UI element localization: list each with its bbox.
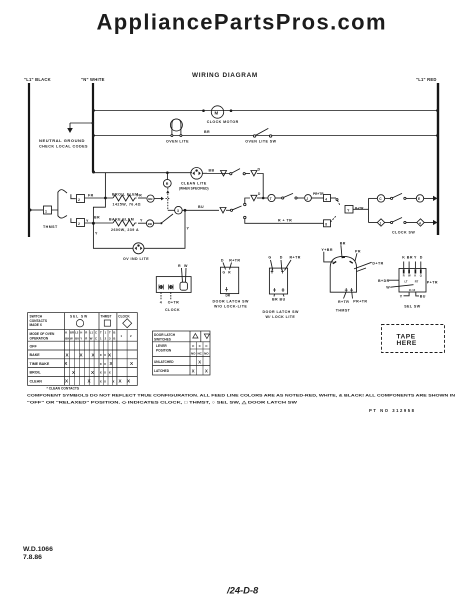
svg-text:W: W — [386, 286, 390, 290]
svg-text:"L1" RED: "L1" RED — [416, 77, 437, 82]
svg-text:11 12: 11 12 — [409, 288, 416, 292]
svg-text:W/O LOCK-LITE: W/O LOCK-LITE — [214, 305, 247, 309]
svg-text:R+TR: R+TR — [229, 258, 240, 262]
coil circle E top right — [416, 195, 437, 202]
svg-text:AppliancePartsPros.com: AppliancePartsPros.com — [97, 10, 386, 35]
coil circle 308 — [305, 192, 325, 201]
connector triangle BU — [220, 208, 226, 214]
svg-text:"N" WHITE: "N" WHITE — [81, 77, 105, 82]
svg-text:2: 2 — [78, 222, 80, 226]
svg-text:THMST: THMST — [336, 309, 351, 313]
svg-text:J: J — [306, 197, 308, 201]
svg-text:R+TR: R+TR — [290, 256, 301, 260]
lamp oven lite — [166, 119, 210, 144]
svg-text:C: C — [95, 337, 97, 341]
svg-text:W: W — [90, 337, 93, 341]
svg-text:PT NO 312958: PT NO 312958 — [369, 408, 415, 413]
svg-text:8: 8 — [325, 223, 327, 227]
svg-text:PR: PR — [355, 249, 361, 253]
sub column lines — [70, 330, 128, 386]
svg-text:B: B — [113, 337, 115, 341]
table switch contacts — [28, 313, 445, 391]
svg-text:BAKE: BAKE — [30, 353, 41, 357]
terminal box 4 — [311, 195, 336, 202]
svg-text:NO: NO — [191, 352, 196, 356]
svg-text:W/ LOCK LITE: W/ LOCK LITE — [266, 315, 296, 319]
svg-text:LATCHED: LATCHED — [154, 369, 170, 373]
lamp clean lite — [179, 168, 215, 191]
svg-text:POSITION: POSITION — [156, 349, 172, 353]
switch oven lite sw — [245, 128, 276, 143]
svg-text:R: R — [403, 273, 405, 277]
svg-text:D: D — [280, 256, 283, 260]
svg-text:O+TR: O+TR — [168, 300, 180, 304]
wire L1 red rail — [437, 83, 439, 235]
svg-text:W.D.1066: W.D.1066 — [23, 546, 53, 553]
svg-text:RT: RT — [415, 279, 419, 283]
svg-text:OVEN LITE: OVEN LITE — [166, 140, 189, 144]
wire link to Y box — [336, 199, 340, 206]
svg-text:D: D — [221, 258, 224, 262]
svg-text:B+DR: B+DR — [378, 279, 390, 283]
svg-text:L1: L1 — [90, 331, 94, 335]
svg-text:L2: L2 — [75, 331, 79, 335]
svg-text:MODE OF OVEN: MODE OF OVEN — [30, 332, 55, 336]
svg-text:MADE X: MADE X — [30, 323, 43, 327]
svg-text:OV IND LITE: OV IND LITE — [123, 257, 149, 261]
svg-text:H: H — [80, 331, 82, 335]
wire L1 black rail — [28, 83, 30, 237]
clock motor M1 — [202, 106, 239, 124]
wire top rail 1 — [93, 110, 438, 112]
door latch sw w/ lock lite connector — [263, 256, 301, 320]
svg-text:HERE: HERE — [397, 340, 417, 347]
switch clock sw top — [385, 193, 417, 199]
svg-text:"L1" BLACK: "L1" BLACK — [24, 77, 51, 82]
svg-text:OPERATION: OPERATION — [30, 337, 49, 341]
svg-text:K: K — [65, 331, 67, 335]
svg-text:LEVER: LEVER — [156, 344, 167, 348]
svg-text:3: 3 — [177, 209, 179, 213]
svg-text:Y+BR: Y+BR — [321, 248, 333, 252]
svg-text:FR: FR — [88, 194, 94, 198]
svg-text:OFF: OFF — [30, 344, 38, 348]
door latch sw w/o lock-lite connector — [213, 258, 249, 308]
svg-text:CLOCK SW: CLOCK SW — [392, 231, 415, 235]
svg-text:C: C — [95, 331, 97, 335]
wire mid rail from N — [93, 172, 192, 174]
wire rail 2 — [93, 135, 438, 137]
selector switch SEL SW connector — [378, 255, 438, 308]
svg-text:CLEAN LITE: CLEAN LITE — [181, 182, 207, 186]
svg-text:CHECK LOCAL CODES: CHECK LOCAL CODES — [39, 145, 88, 149]
svg-text:4: 4 — [325, 197, 327, 201]
svg-text:T: T — [100, 331, 102, 335]
wire BU line — [182, 205, 219, 212]
svg-text:P+TR: P+TR — [427, 280, 438, 284]
svg-text:4: 4 — [160, 300, 162, 304]
resistor broil element — [85, 193, 162, 207]
svg-text:7.8.86: 7.8.86 — [23, 554, 42, 561]
diamond contact clock sw bottom right — [392, 219, 438, 235]
svg-text:TIME BAKE: TIME BAKE — [30, 362, 50, 366]
switch selector contact to two throws — [230, 203, 246, 218]
svg-text:NO: NO — [204, 352, 209, 356]
svg-text:CLOCK MOTOR: CLOCK MOTOR — [207, 120, 239, 124]
svg-text:BR BU: BR BU — [272, 298, 286, 302]
wire ov ind lite loop — [92, 210, 190, 248]
switch clean lite sw — [230, 169, 250, 175]
svg-text:T: T — [109, 331, 111, 335]
note component symbols — [23, 394, 455, 596]
svg-text:B+TR: B+TR — [355, 207, 364, 211]
svg-text:LT: LT — [405, 280, 408, 284]
svg-text:X: X — [192, 369, 195, 374]
svg-text:BB: BB — [209, 169, 215, 173]
svg-text:x: x — [104, 362, 106, 366]
svg-text:R: R — [85, 337, 87, 341]
svg-text:W: W — [184, 264, 188, 268]
svg-text:DR: DR — [226, 294, 231, 298]
svg-text:SWITCHES: SWITCHES — [154, 337, 171, 341]
svg-text:K: K — [414, 273, 416, 277]
resistor bake element — [85, 216, 161, 233]
svg-text:Y: Y — [187, 227, 190, 231]
svg-text:BR: BR — [340, 241, 346, 245]
svg-text:Y: Y — [80, 337, 82, 341]
connectors row — [156, 241, 438, 319]
terminal box 8 — [324, 216, 337, 227]
svg-text:UNLATCHED: UNLATCHED — [154, 360, 174, 364]
wire lower branch R+TR — [245, 219, 324, 224]
clock connector — [156, 264, 191, 312]
row labels — [30, 344, 50, 383]
svg-text:Y: Y — [95, 232, 98, 236]
svg-text:K: K — [402, 255, 405, 259]
svg-text:x: x — [113, 379, 115, 383]
connector triangle D — [251, 171, 257, 177]
svg-text:1: 1 — [45, 210, 47, 214]
svg-text:B: B — [113, 331, 115, 335]
svg-text:DOOR LATCH SW: DOOR LATCH SW — [263, 310, 299, 314]
svg-text:BR: BR — [204, 130, 210, 134]
ground neutral arrow — [39, 122, 94, 149]
relay coil K and link — [161, 171, 171, 210]
svg-text:THMST: THMST — [101, 314, 112, 318]
table door latch switches — [153, 331, 211, 375]
coil circle T top — [377, 195, 384, 202]
svg-text:/24-D-8: /24-D-8 — [226, 585, 259, 596]
svg-text:BR: BR — [94, 216, 100, 220]
svg-text:G: G — [268, 256, 271, 260]
switch after J — [275, 193, 304, 199]
svg-text:PR+TR: PR+TR — [353, 300, 367, 304]
thermostat THMST connector dome — [321, 241, 383, 312]
svg-text:BU: BU — [75, 337, 79, 341]
tape here box — [382, 325, 445, 353]
svg-text:BR: BR — [407, 255, 413, 259]
lamp ov ind lite — [123, 243, 149, 261]
thermostat THMST contact block — [29, 190, 85, 229]
diamond contact clock sw bottom left — [377, 219, 384, 226]
svg-text:BROIL: BROIL — [30, 371, 42, 375]
svg-text:X: X — [198, 359, 201, 364]
X marks — [64, 352, 134, 383]
svg-text:NEUTRAL GROUND: NEUTRAL GROUND — [39, 139, 85, 143]
svg-text:(WHEN SPECIFIED): (WHEN SPECIFIED) — [179, 187, 209, 191]
wire top branch y198 — [245, 198, 250, 203]
svg-text:x: x — [104, 371, 106, 375]
wire drop to broil line — [93, 173, 105, 224]
svg-text:BR: BR — [70, 331, 74, 335]
svg-text:CLEAN: CLEAN — [30, 380, 43, 384]
terminal box Y — [345, 206, 369, 214]
svg-text:DOOR LATCH SW: DOOR LATCH SW — [213, 299, 249, 303]
svg-text:CLOCK: CLOCK — [118, 314, 130, 318]
svg-text:E: E — [418, 197, 420, 201]
tiny sub headers — [65, 331, 132, 341]
svg-text:4: 4 — [419, 221, 421, 225]
svg-text:X: X — [205, 369, 208, 374]
svg-text:T: T — [270, 197, 272, 201]
svg-text:x: x — [100, 379, 102, 383]
svg-text:Y: Y — [140, 219, 143, 223]
switch arm upper to box 2 — [52, 192, 58, 217]
svg-text:BU: BU — [198, 205, 204, 209]
switch arm lower to box 2 — [58, 216, 67, 219]
svg-text:CLOCK: CLOCK — [165, 308, 180, 312]
svg-text:x: x — [100, 371, 102, 375]
svg-text:COMPONENT SYMBOLS DO NOT REFLE: COMPONENT SYMBOLS DO NOT REFLECT TRUE CO… — [27, 394, 455, 398]
svg-text:R: R — [85, 331, 87, 335]
svg-text:x: x — [100, 353, 102, 357]
svg-text:SEL SW: SEL SW — [70, 314, 88, 318]
svg-text:BK: BK — [65, 337, 69, 341]
row lines — [28, 329, 138, 331]
svg-text:Q: Q — [420, 273, 422, 277]
svg-text:FR: FR — [137, 194, 143, 198]
svg-text:2: 2 — [78, 198, 80, 202]
svg-text:"OFF" OR "RELAXED" POSITION.: "OFF" OR "RELAXED" POSITION. ◇ INDICATES… — [27, 401, 298, 405]
svg-text:SEL SW: SEL SW — [404, 305, 421, 309]
relay coil J circle — [268, 194, 275, 201]
wire clock sw split — [368, 198, 370, 222]
svg-text:R+TR: R+TR — [338, 300, 349, 304]
svg-text:BU: BU — [420, 295, 426, 299]
svg-text:Y: Y — [414, 255, 417, 259]
svg-text:WIRING DIAGRAM: WIRING DIAGRAM — [192, 72, 258, 79]
svg-text:Y: Y — [400, 294, 403, 298]
svg-text:x: x — [109, 371, 111, 375]
svg-text:x: x — [104, 353, 106, 357]
svg-text:D: D — [258, 168, 261, 172]
svg-text:M: M — [215, 111, 219, 116]
svg-text:2600W, 239 A: 2600W, 239 A — [111, 228, 139, 232]
connector triangle D2 — [251, 195, 257, 201]
switch bake relay contact — [160, 206, 182, 224]
svg-text:R: R — [178, 264, 181, 268]
connector triangle A — [221, 171, 227, 177]
svg-text:D: D — [420, 255, 423, 259]
svg-text:THMST: THMST — [43, 225, 58, 229]
svg-text:R + TR: R + TR — [278, 219, 292, 223]
svg-text:x: x — [100, 362, 102, 366]
wire corner down — [257, 174, 263, 199]
svg-text:D+TR: D+TR — [372, 261, 383, 265]
svg-text:OVEN LITE SW: OVEN LITE SW — [245, 140, 276, 144]
svg-text:PR+TR: PR+TR — [313, 192, 324, 196]
svg-text:1425W, 76.4Ω: 1425W, 76.4Ω — [113, 203, 141, 207]
svg-text:R: R — [166, 182, 169, 186]
wire N white rail — [92, 83, 94, 172]
svg-text:* CLEAN CONTACTS: * CLEAN CONTACTS — [47, 386, 80, 390]
outer column lines — [64, 313, 66, 386]
svg-text:1: 1 — [380, 221, 382, 225]
svg-text:Y: Y — [86, 219, 89, 223]
switch clock sw bottom — [385, 218, 417, 224]
svg-text:x: x — [104, 379, 106, 383]
svg-text:W: W — [70, 337, 73, 341]
